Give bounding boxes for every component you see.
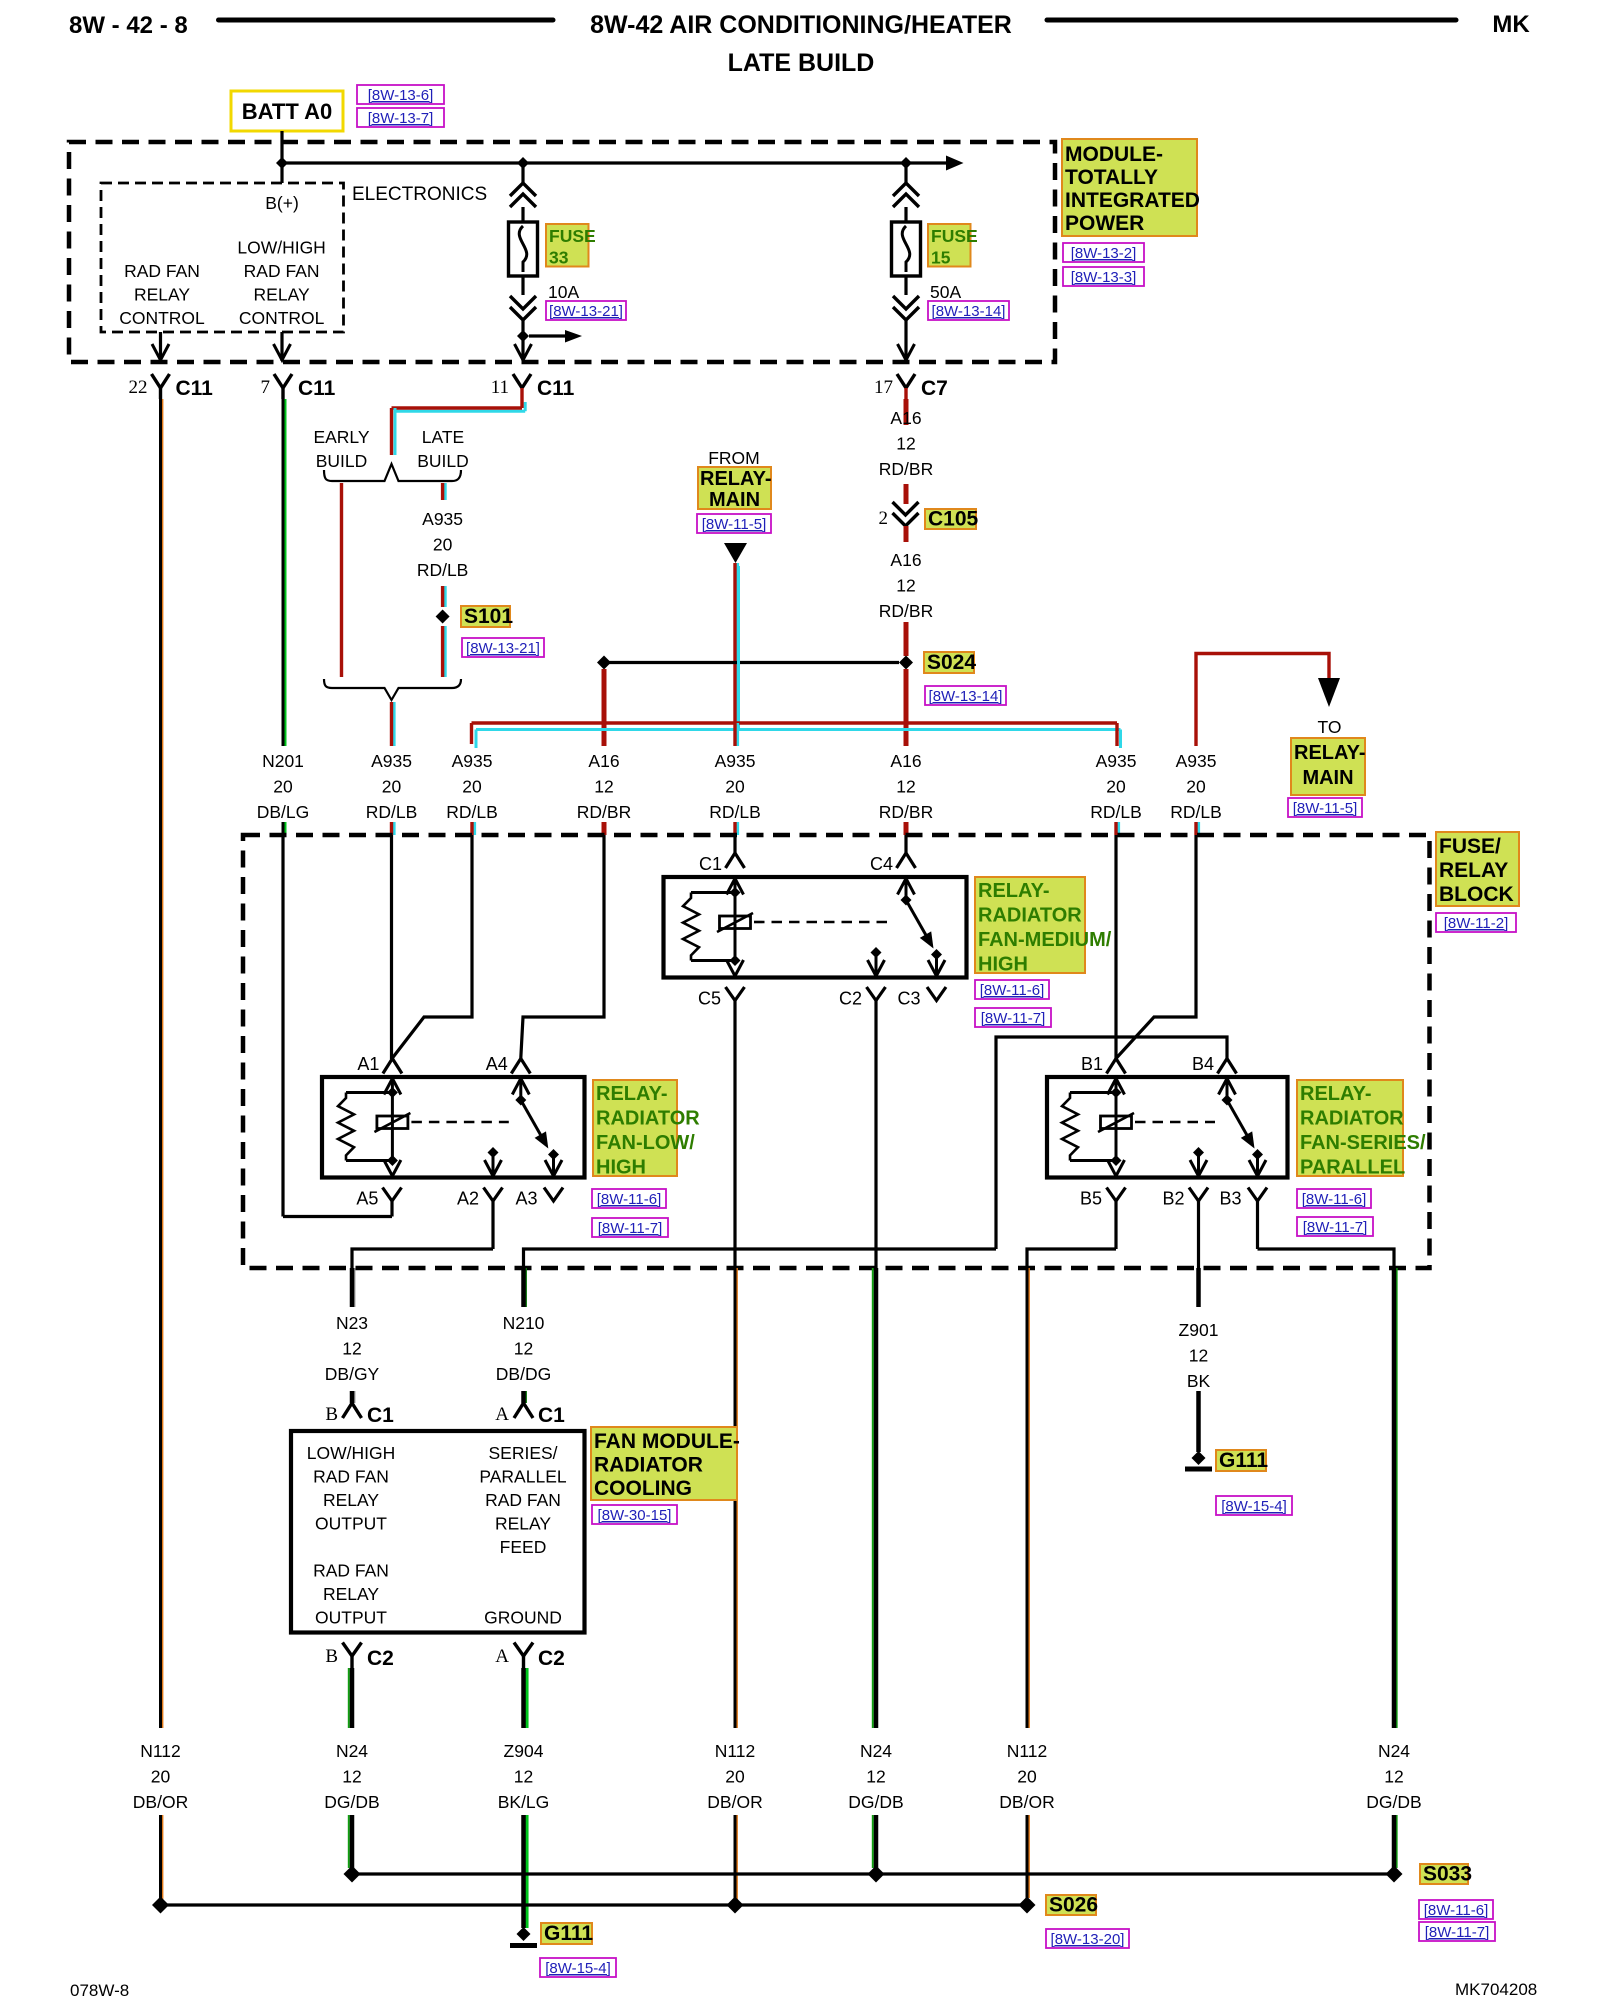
svg-text:[8W-13-21]: [8W-13-21] [466,640,540,657]
wire B5 to N112 [1027,1249,1116,1268]
wire A935 below brace [393,702,396,746]
wire A935 inside block to A1 [390,835,393,1059]
wire A935 col3 jog to A1 [392,835,472,1058]
svg-text:Z904: Z904 [504,1741,544,1761]
wire batt to electronics [280,131,283,183]
svg-text:MODULE-: MODULE- [1065,143,1163,166]
svg-text:[8W-15-4]: [8W-15-4] [545,1960,611,1977]
junction N24 left [344,1866,361,1883]
wire N201 stub into block [284,822,287,835]
svg-text:RADIATOR: RADIATOR [1300,1108,1404,1130]
svg-text:[8W-11-5]: [8W-11-5] [702,516,766,533]
label RELAY-RADIATOR FAN-SERIES/PARALLEL [1297,1080,1403,1176]
wire A935 stub into block col A1 [393,822,396,835]
svg-text:MK704208: MK704208 [1455,1980,1537,1999]
wire A935 from relay-main to bus [736,563,739,723]
svg-text:33: 33 [549,248,569,268]
svg-text:C1: C1 [699,854,722,874]
label FAN MODULE-RADIATOR COOLING [591,1427,737,1500]
relay coil [720,916,751,929]
bus A935 RD/LB [476,728,1121,731]
svg-text:COOLING: COOLING [594,1477,692,1500]
svg-text:S101: S101 [464,605,513,628]
wire A16 stub into block [904,822,909,835]
switch blade [521,1100,542,1137]
svg-text:TO: TO [1318,717,1342,737]
svg-text:12: 12 [342,1339,361,1359]
link 8W-11-2 [1436,913,1516,932]
svg-text:LOW/HIGH: LOW/HIGH [307,1443,395,1463]
svg-text:22: 22 [129,377,148,398]
fan module connector C2 pin B [343,1643,362,1657]
svg-text:[8W-13-7]: [8W-13-7] [368,110,434,127]
splice S033 [1386,1866,1403,1883]
label S101 [461,606,510,627]
svg-text:S024: S024 [927,651,976,674]
svg-text:C4: C4 [870,854,893,874]
header rule right [1047,18,1456,23]
svg-text:[8W-11-6]: [8W-11-6] [597,1191,661,1208]
resistor coil-suppression [338,1093,354,1161]
link 8W-13-6 [357,85,444,104]
svg-text:B4: B4 [1192,1054,1214,1074]
fuse 33 branch arrow [521,320,524,361]
svg-text:N112: N112 [715,1741,756,1761]
svg-text:Z901: Z901 [1179,1320,1219,1340]
connector C11 pin 7 [274,374,292,388]
svg-text:[8W-13-3]: [8W-13-3] [1071,269,1137,286]
wire N24 12 DG/DB left [348,1668,350,1728]
svg-text:RD/LB: RD/LB [1090,802,1142,822]
wire N23 12 DB/GY [354,1268,356,1307]
wire N210 12 DB/DG [525,1268,527,1307]
label RELAY-RADIATOR FAN-MEDIUM/HIGH [975,877,1085,973]
header rule left [219,18,554,23]
wire N210 feed to B4 [996,1037,1227,1249]
link 8W-13-3 [1063,267,1144,286]
relay coil [377,1116,408,1129]
svg-text:7: 7 [261,377,271,398]
wire A935 inside block to C1 [733,835,736,853]
svg-text:BLOCK: BLOCK [1439,883,1514,906]
wire Z901 12 BK [1196,1268,1201,1307]
wire A16 branch to relay A [602,669,607,746]
svg-text:DB/OR: DB/OR [999,1792,1054,1812]
arrowhead feed bus [946,156,964,171]
actuation dashed link [411,1121,508,1124]
fuse F15 [904,163,907,183]
svg-text:RELAY-: RELAY- [1300,1083,1372,1105]
svg-text:POWER: POWER [1065,212,1144,235]
svg-text:MAIN: MAIN [709,489,760,511]
svg-text:C11: C11 [298,377,336,400]
svg-text:CONTROL: CONTROL [119,308,205,328]
svg-text:12: 12 [896,434,915,454]
connector C7 pin 17 [897,374,915,388]
wire B3 to N24 [1258,1249,1395,1268]
link 8W-13-21 fuse33 [546,301,626,320]
wire A935 to relay-main [1196,654,1329,747]
relay RELAY-RADIATOR FAN-SERIES/PARALLEL [1047,1077,1288,1178]
brace early/late top [324,464,461,481]
svg-text:RELAY: RELAY [495,1514,551,1534]
fan module connector C2 pin A [514,1643,533,1657]
wire N24 12 DG/DB right [1396,1268,1398,1728]
wire N112 20 DB/OR left [161,399,163,1728]
wire A16 from C7 [904,399,909,425]
svg-text:[8W-11-7]: [8W-11-7] [981,1010,1045,1027]
svg-text:12: 12 [514,1339,533,1359]
wire A2 to N23 [352,1249,493,1268]
wire N112 to S026 [161,1815,163,1900]
arrow from relay-main [724,543,747,563]
svg-text:DB/OR: DB/OR [707,1792,762,1812]
svg-text:[8W-13-21]: [8W-13-21] [549,303,623,320]
svg-text:C2: C2 [839,989,862,1009]
svg-text:078W-8: 078W-8 [70,1981,129,2000]
svg-text:[8W-11-6]: [8W-11-6] [1302,1191,1366,1208]
svg-text:8W - 42 - 8: 8W - 42 - 8 [69,12,188,39]
svg-text:12: 12 [1189,1346,1208,1366]
svg-text:N201: N201 [262,751,304,771]
label FUSE/RELAY BLOCK [1436,832,1519,906]
svg-text:G111: G111 [1219,1449,1268,1472]
svg-text:A3: A3 [515,1189,537,1209]
svg-text:[8W-13-14]: [8W-13-14] [929,688,1003,705]
svg-text:RD/LB: RD/LB [709,802,761,822]
label G111 lower [541,1923,592,1944]
svg-text:RELAY: RELAY [323,1584,379,1604]
svg-text:A: A [495,1646,509,1667]
svg-text:DG/DB: DG/DB [324,1792,379,1812]
junction batt feed [276,157,288,169]
svg-text:B3: B3 [1219,1189,1241,1209]
svg-text:LOW/HIGH: LOW/HIGH [237,238,325,258]
svg-text:B5: B5 [1080,1189,1102,1209]
splice S101 [436,610,450,624]
junction fuse15 feed [900,157,912,169]
svg-text:11: 11 [491,377,509,398]
svg-text:ELECTRONICS: ELECTRONICS [352,184,487,205]
svg-text:G111: G111 [544,1922,593,1945]
svg-text:INTEGRATED: INTEGRATED [1065,189,1200,212]
link 8W-13-14 S024 [925,686,1006,705]
svg-text:20: 20 [273,777,293,797]
svg-text:[8W-11-6]: [8W-11-6] [1424,1902,1488,1919]
wire C2 out of relay C [874,1001,877,1269]
svg-text:N24: N24 [860,1741,892,1761]
wire main feed bus [282,161,946,164]
svg-text:20: 20 [725,1767,745,1787]
wire A16 below C105 [904,526,909,542]
label C105 [925,509,976,529]
splice S026 [1019,1897,1036,1914]
wire A16 jog to A4 [521,835,604,1058]
svg-text:B1: B1 [1081,1054,1103,1074]
svg-text:C11: C11 [176,377,214,400]
wire A935 from C11 pin 11 [524,402,527,411]
ground G111 (Z904) [517,1927,531,1941]
svg-text:A16: A16 [890,751,921,771]
switch blade [906,900,927,937]
label TO RELAY-MAIN [1291,738,1365,795]
svg-text:FUSE/: FUSE/ [1439,835,1501,858]
svg-text:C5: C5 [698,989,721,1009]
svg-text:GROUND: GROUND [484,1608,562,1628]
wire A935 stub col B1 [1117,822,1120,835]
svg-text:[8W-11-7]: [8W-11-7] [1303,1219,1367,1236]
svg-text:20: 20 [382,777,402,797]
module TIPM dashed outline [69,142,1055,362]
link 8W-11-6 relayC [975,980,1049,999]
wire A16 inside block to C4 [904,835,907,853]
svg-text:[8W-11-7]: [8W-11-7] [1425,1924,1489,1941]
svg-text:50A: 50A [930,282,961,302]
svg-text:A935: A935 [1176,751,1217,771]
svg-text:20: 20 [1106,777,1126,797]
link 8W-11-6 relayA [592,1189,666,1208]
fuse F33 [521,163,524,183]
brace early/late bottom [324,679,461,700]
svg-text:BK/LG: BK/LG [498,1792,550,1812]
wire early build branch [340,483,343,677]
svg-text:FAN-MEDIUM/: FAN-MEDIUM/ [978,929,1112,951]
svg-text:OUTPUT: OUTPUT [315,1514,387,1534]
label G111 upper [1216,1450,1266,1471]
label FUSE 15 [928,224,971,267]
svg-text:12: 12 [866,1767,885,1787]
svg-text:PARALLEL: PARALLEL [479,1467,566,1487]
svg-text:[8W-11-2]: [8W-11-2] [1444,915,1508,932]
svg-text:12: 12 [1384,1767,1403,1787]
svg-text:DB/DG: DB/DG [496,1364,551,1384]
svg-text:FEED: FEED [500,1537,547,1557]
link 8W-11-6 relayB [1297,1189,1371,1208]
electronics inner dashed box [101,183,344,332]
svg-text:RD/BR: RD/BR [879,601,933,621]
fuse/relay block dashed outline [243,835,1430,1268]
link 8W-11-6 S033 [1419,1900,1493,1919]
svg-text:10A: 10A [548,282,579,302]
svg-text:FROM: FROM [708,448,760,468]
link 8W-13-21 S101 [462,638,544,657]
svg-text:C105: C105 [928,508,979,531]
actuation dashed link [1135,1121,1215,1124]
svg-text:[8W-11-5]: [8W-11-5] [1293,800,1357,817]
svg-text:A935: A935 [452,751,493,771]
relay RELAY-RADIATOR FAN-LOW/HIGH [322,1077,585,1178]
wire A935 col B4 jog to B1 [1116,835,1196,1058]
svg-text:B: B [325,1646,338,1667]
svg-text:A16: A16 [588,751,619,771]
label S024 [924,652,974,673]
svg-text:SERIES/: SERIES/ [488,1443,557,1463]
svg-text:12: 12 [896,777,915,797]
link 8W-15-4 upper [1216,1496,1292,1515]
svg-text:MK: MK [1492,11,1530,38]
wire S024 tie [604,661,899,664]
svg-text:20: 20 [151,1767,171,1787]
ground G111 (Z901) [1192,1451,1206,1465]
splice S033 line [352,1872,1394,1875]
svg-text:RD/LB: RD/LB [446,802,498,822]
svg-text:RD/LB: RD/LB [417,560,469,580]
svg-text:RELAY: RELAY [323,1490,379,1510]
svg-text:C11: C11 [537,377,575,400]
svg-text:RAD FAN: RAD FAN [485,1490,561,1510]
svg-text:RELAY-: RELAY- [596,1083,668,1105]
svg-text:BATT A0: BATT A0 [242,99,332,124]
svg-text:15: 15 [931,248,951,268]
switch blade [1227,1100,1248,1137]
label MODULE-TOTALLY INTEGRATED POWER [1062,139,1197,236]
wire C5 out of relay C [733,1001,736,1269]
svg-text:[8W-13-14]: [8W-13-14] [932,303,1006,320]
resistor coil-suppression [683,893,699,961]
wire A935 bus to C1 label [736,723,739,746]
svg-text:FUSE: FUSE [931,226,978,246]
svg-text:RADIATOR: RADIATOR [978,905,1082,927]
link 8W-30-15 [592,1505,677,1524]
svg-text:A1: A1 [357,1054,379,1074]
svg-text:2: 2 [879,508,889,529]
svg-text:A5: A5 [356,1189,378,1209]
svg-text:C2: C2 [367,1647,394,1670]
svg-text:RD/BR: RD/BR [879,802,933,822]
svg-text:LATE BUILD: LATE BUILD [728,49,875,77]
svg-text:A935: A935 [1096,751,1137,771]
svg-text:MAIN: MAIN [1302,767,1353,789]
svg-text:A4: A4 [486,1054,508,1074]
junction N112 mid [727,1897,744,1914]
wire A16 S024 to label [904,669,909,746]
svg-text:8W-42 AIR CONDITIONING/HEATER: 8W-42 AIR CONDITIONING/HEATER [590,11,1012,39]
svg-text:DG/DB: DG/DB [1366,1792,1421,1812]
svg-text:B(+): B(+) [265,193,299,213]
svg-text:DB/LG: DB/LG [257,802,310,822]
svg-text:RADIATOR: RADIATOR [594,1454,703,1477]
link 8W-13-7 [357,108,444,127]
label S026 [1046,1895,1096,1915]
splice S026 line [161,1903,1028,1906]
connector C11 pin 22 [152,374,170,388]
svg-text:17: 17 [874,377,893,398]
link 8W-11-7 S033 [1419,1922,1495,1941]
svg-text:PARALLEL: PARALLEL [1300,1157,1405,1179]
fan module connector C1 pin B [343,1403,362,1418]
svg-text:DB/GY: DB/GY [325,1364,380,1384]
svg-text:BK: BK [1187,1371,1211,1391]
wire A935 inside block to B1 [1114,835,1117,1059]
svg-text:LATE: LATE [422,427,464,447]
wire N112 20 DB/OR mid [736,1268,738,1728]
link 8W-13-14 fuse15 [928,301,1009,320]
fuse 15 tail [904,320,907,361]
svg-text:RAD FAN: RAD FAN [313,1467,389,1487]
svg-text:A16: A16 [890,550,921,570]
svg-text:DB/OR: DB/OR [133,1792,188,1812]
link 8W-11-5 from [697,514,771,533]
resistor coil-suppression [1062,1093,1078,1161]
svg-text:[8W-30-15]: [8W-30-15] [598,1507,672,1524]
svg-text:BUILD: BUILD [316,451,368,471]
link 8W-13-2 [1063,243,1144,262]
svg-text:RD/BR: RD/BR [879,459,933,479]
relay RELAY-RADIATOR FAN-MEDIUM/HIGH [664,877,967,978]
svg-text:A935: A935 [371,751,412,771]
label FUSE 33 [546,224,589,267]
wire A5 to N201 [390,1215,393,1218]
svg-text:DG/DB: DG/DB [848,1792,903,1812]
svg-text:BUILD: BUILD [417,451,469,471]
svg-text:N24: N24 [1378,1741,1410,1761]
svg-text:RAD FAN: RAD FAN [313,1561,389,1581]
svg-text:[8W-11-7]: [8W-11-7] [598,1220,662,1237]
wire N201 inside block to A5 [281,835,284,1217]
svg-text:N24: N24 [336,1741,368,1761]
svg-text:RELAY: RELAY [134,285,190,305]
svg-text:A935: A935 [715,751,756,771]
fan module box [291,1431,585,1633]
battery feed BATT A0 [231,91,343,131]
svg-text:B: B [325,1404,338,1425]
TIPM pin stems and edge arrows [159,332,162,361]
link 8W-11-7 relayC [975,1008,1051,1027]
junction N112 left [152,1897,169,1914]
svg-text:N23: N23 [336,1313,368,1333]
svg-text:C3: C3 [897,989,920,1009]
wire Z904 12 BK/LG [525,1668,528,1728]
connector C11 pin 11 [513,374,531,388]
svg-text:B2: B2 [1162,1189,1184,1209]
fan module connector C1 pin A [514,1403,533,1418]
link 8W-11-7 relayB [1297,1217,1373,1236]
svg-text:RELAY-: RELAY- [978,880,1050,902]
svg-text:C7: C7 [921,377,948,400]
svg-text:12: 12 [342,1767,361,1787]
wire N201 20 DB/LG [284,399,287,746]
wire N24 12 DG/DB mid [872,1268,874,1728]
link 8W-13-20 [1046,1929,1129,1948]
svg-text:RAD FAN: RAD FAN [244,261,320,281]
svg-text:A935: A935 [422,509,463,529]
svg-text:OUTPUT: OUTPUT [315,1608,387,1628]
svg-text:[8W-15-4]: [8W-15-4] [1221,1498,1287,1515]
svg-text:FUSE: FUSE [549,226,596,246]
svg-text:TOTALLY: TOTALLY [1065,166,1158,189]
arrow to relay-main [1318,678,1340,707]
svg-text:20: 20 [462,777,482,797]
svg-text:RELAY-: RELAY- [700,468,772,490]
svg-text:12: 12 [896,576,915,596]
svg-text:12: 12 [594,777,613,797]
svg-text:[8W-13-2]: [8W-13-2] [1071,245,1137,262]
svg-text:C2: C2 [538,1647,565,1670]
svg-text:RELAY: RELAY [254,285,310,305]
svg-text:RELAY: RELAY [1439,859,1508,882]
svg-text:RAD FAN: RAD FAN [124,261,200,281]
link 8W-11-7 relayA [592,1218,668,1237]
svg-text:12: 12 [514,1767,533,1787]
svg-text:RD/LB: RD/LB [366,802,418,822]
svg-text:RELAY-: RELAY- [1294,742,1366,764]
svg-text:[8W-13-6]: [8W-13-6] [368,87,434,104]
link 8W-11-5 to [1288,798,1362,817]
svg-text:FAN MODULE-: FAN MODULE- [594,1430,740,1453]
svg-text:20: 20 [725,777,745,797]
svg-text:[8W-13-20]: [8W-13-20] [1051,1931,1125,1948]
label RELAY-RADIATOR FAN-LOW/HIGH [593,1080,677,1176]
